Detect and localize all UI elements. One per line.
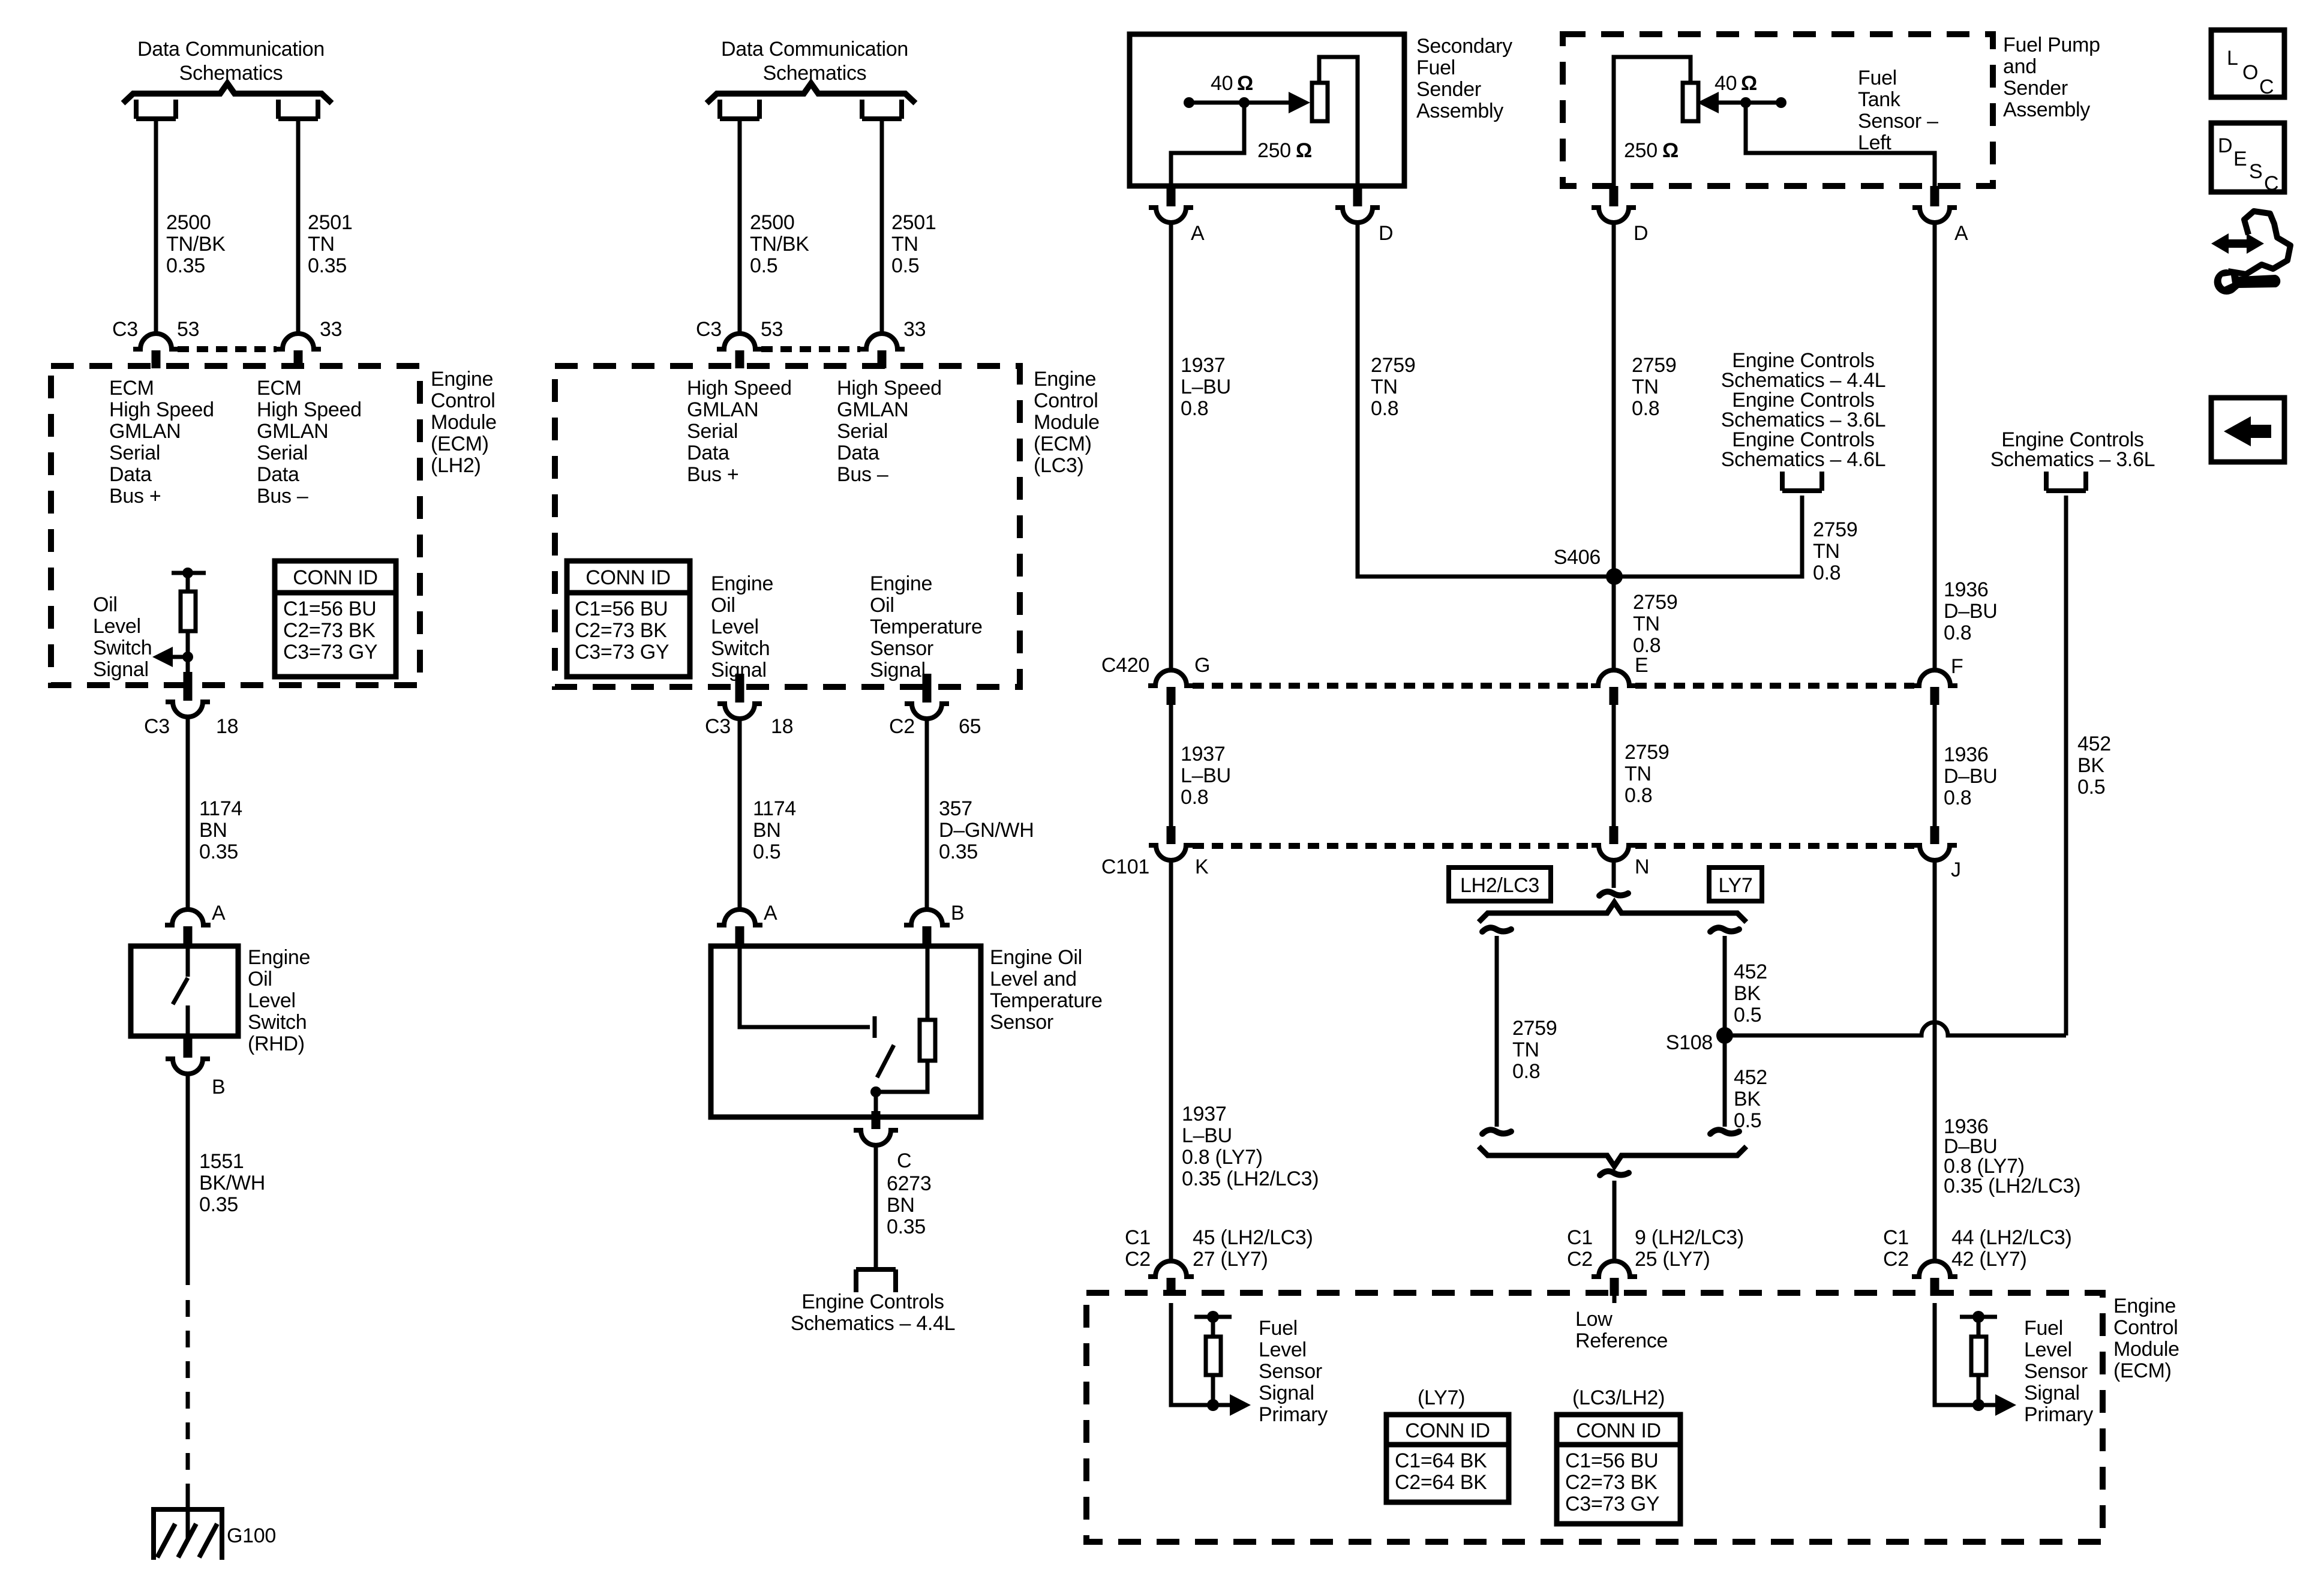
label: Secondary Fuel Sender Assembly — [1416, 35, 1512, 122]
connector C420 pin F — [1912, 670, 1957, 705]
svg-text:(RHD): (RHD) — [248, 1032, 305, 1055]
svg-text:LY7: LY7 — [1718, 874, 1752, 897]
svg-text:0.35: 0.35 — [199, 1193, 238, 1216]
svg-text:S: S — [2249, 160, 2262, 183]
svg-text:K: K — [1195, 855, 1209, 878]
svg-text:Bus +: Bus + — [687, 463, 738, 486]
C420 dashed row segment G-E — [1193, 683, 1594, 689]
svg-text:ECM: ECM — [257, 377, 302, 400]
svg-text:Serial: Serial — [109, 442, 160, 464]
label wire 1937 lower (K) — [1182, 1103, 1319, 1190]
svg-text:F: F — [1951, 655, 1963, 678]
wire 452 BK 0.5 from off-page to S108 branch — [2064, 496, 2068, 1035]
svg-text:18: 18 — [216, 715, 238, 738]
svg-text:TN: TN — [891, 233, 918, 256]
svg-text:0.35 (LH2/LC3): 0.35 (LH2/LC3) — [1944, 1175, 2080, 1197]
wire 2759 TN 0.8 branch S406 to off-page — [1614, 496, 1802, 577]
label: Fuel Pump and Sender Assembly — [2003, 34, 2100, 121]
svg-text:Level: Level — [248, 989, 296, 1012]
svg-text:Primary: Primary — [1259, 1403, 1328, 1426]
svg-text:High Speed: High Speed — [109, 398, 214, 421]
svg-text:BK/WH: BK/WH — [199, 1172, 265, 1194]
labels C1 C2 pin 44/42 — [1883, 1226, 2072, 1271]
svg-text:GMLAN: GMLAN — [687, 398, 758, 421]
svg-text:Signal: Signal — [870, 659, 926, 682]
label wire 452 BK 0.5 (below S108) — [1734, 1066, 1767, 1132]
svg-text:Schematics – 4.4L: Schematics – 4.4L — [791, 1312, 956, 1335]
oil level switch signal node (inside ECM LH2) — [152, 568, 206, 685]
svg-text:Engine Controls: Engine Controls — [801, 1290, 944, 1313]
labels C3 18 — [144, 715, 238, 738]
svg-text:High Speed: High Speed — [687, 377, 792, 400]
svg-text:250: 250 — [1624, 139, 1658, 162]
svg-text:Ω: Ω — [1296, 139, 1312, 162]
svg-text:Schematics – 3.6L: Schematics – 3.6L — [1990, 448, 2155, 471]
svg-text:TN: TN — [308, 233, 335, 256]
svg-text:Engine: Engine — [431, 368, 493, 391]
off-page connector (Data Communication, wire 2501 col1) — [278, 100, 318, 119]
LOC icon box — [2211, 30, 2284, 98]
svg-text:40: 40 — [1715, 72, 1737, 95]
svg-text:L: L — [2227, 47, 2238, 70]
svg-text:Level: Level — [1259, 1338, 1307, 1361]
label: Engine Controls Schematics 4.4L/3.6L/4.6L stack — [1721, 349, 1886, 471]
svg-text:0.5: 0.5 — [750, 254, 777, 277]
label wire 452 BK 0.5 (upper right) — [2077, 733, 2111, 798]
svg-text:1936: 1936 — [1944, 743, 1988, 766]
svg-text:Level: Level — [711, 616, 759, 638]
off-page connector to Engine Controls 4.4L — [856, 1269, 896, 1292]
svg-text:0.5: 0.5 — [1734, 1109, 1761, 1132]
svg-text:2759: 2759 — [1632, 354, 1676, 377]
svg-text:Serial: Serial — [687, 420, 738, 443]
switch symbol (oil level switch) — [173, 946, 188, 1036]
off-page connector (wire 2500 col2) — [720, 100, 759, 119]
svg-text:TN: TN — [1632, 376, 1659, 398]
svg-text:0.8: 0.8 — [1625, 784, 1652, 807]
svg-text:Fuel: Fuel — [1259, 1317, 1298, 1340]
svg-text:Assembly: Assembly — [1416, 100, 1503, 122]
connector D (secondary fuel sender) — [1335, 186, 1380, 223]
svg-text:(ECM): (ECM) — [431, 433, 489, 455]
svg-text:Data: Data — [109, 463, 152, 486]
svg-text:(LH2): (LH2) — [431, 454, 481, 477]
connector B (oil level/temp sensor) — [904, 909, 950, 944]
svg-text:Serial: Serial — [837, 420, 888, 443]
svg-text:C3=73 GY: C3=73 GY — [1565, 1493, 1659, 1515]
svg-text:G: G — [1194, 654, 1210, 677]
svg-text:2500: 2500 — [166, 211, 211, 234]
svg-text:C3: C3 — [705, 715, 731, 738]
svg-text:(LY7): (LY7) — [1418, 1386, 1465, 1409]
svg-text:2759: 2759 — [1633, 591, 1677, 614]
svg-text:Data Communication: Data Communication — [137, 38, 325, 61]
svg-text:0.5: 0.5 — [753, 840, 780, 863]
label 40 ohm (fuel tank) — [1715, 72, 1757, 95]
svg-text:Oil: Oil — [248, 968, 272, 990]
svg-text:0.8: 0.8 — [1181, 786, 1208, 809]
svg-text:Schematics: Schematics — [763, 62, 867, 85]
svg-text:Engine: Engine — [870, 572, 932, 595]
potentiometer (fuel tank sensor left) — [1614, 57, 1935, 186]
svg-text:C2: C2 — [1883, 1248, 1909, 1271]
label wire 1174 — [199, 797, 242, 863]
label wire 6273 — [887, 1172, 931, 1238]
svg-text:Sender: Sender — [2003, 77, 2068, 100]
label wire 357 — [939, 797, 1034, 863]
svg-text:2759: 2759 — [1512, 1017, 1557, 1040]
svg-text:and: and — [2003, 55, 2037, 78]
svg-text:Module: Module — [431, 411, 497, 434]
C101 dashed row segment N-J — [1635, 843, 1914, 849]
connector ECM pin 44/42 — [1912, 1261, 1957, 1296]
svg-text:1174: 1174 — [199, 797, 242, 820]
connector C101 pin K — [1149, 826, 1193, 860]
svg-text:C2: C2 — [1125, 1248, 1151, 1271]
svg-text:High Speed: High Speed — [837, 377, 942, 400]
svg-text:Temperature: Temperature — [870, 616, 983, 638]
svg-text:44 (LH2/LC3): 44 (LH2/LC3) — [1951, 1226, 2072, 1249]
svg-text:0.8: 0.8 — [1512, 1060, 1540, 1083]
label wire 2501 — [308, 211, 352, 277]
svg-text:Engine: Engine — [711, 572, 773, 595]
svg-text:TN: TN — [1371, 376, 1398, 398]
dashed bus link col2 — [761, 346, 860, 352]
connector A (fuel pump assembly) — [1912, 186, 1957, 223]
label: Engine Controls Schematics - 4.4L — [791, 1290, 956, 1335]
svg-text:BK: BK — [2077, 754, 2104, 777]
svg-text:D: D — [1634, 222, 1648, 245]
svg-text:Level and: Level and — [990, 968, 1077, 990]
svg-text:1174: 1174 — [753, 797, 796, 820]
boxed label LH2/LC3 — [1449, 867, 1551, 901]
pin labels C3 53 33 (ECM LH2 bus) — [112, 318, 342, 341]
svg-text:B: B — [951, 902, 964, 924]
svg-text:Engine Oil: Engine Oil — [990, 946, 1082, 969]
label 250 ohm (fuel tank) — [1624, 139, 1679, 162]
label wire 2759 (left) — [1371, 354, 1415, 420]
ground G100 — [154, 1498, 222, 1560]
svg-text:Engine: Engine — [1034, 368, 1096, 391]
label wire 1937 mid — [1181, 743, 1231, 809]
potentiometer (secondary fuel sender) — [1171, 57, 1358, 186]
svg-text:0.8: 0.8 — [1944, 786, 1971, 809]
svg-text:Primary: Primary — [2024, 1403, 2093, 1426]
wire 2759 TN 0.8 (fuel pump D through S406 to E) — [1612, 223, 1616, 670]
svg-text:Data: Data — [687, 442, 729, 464]
svg-text:Engine: Engine — [2113, 1295, 2176, 1317]
Engine Oil Level and Temperature Sensor box — [711, 946, 981, 1117]
svg-text:Schematics: Schematics — [179, 62, 283, 85]
svg-text:2759: 2759 — [1625, 741, 1669, 764]
boxed label LY7 — [1709, 867, 1762, 901]
svg-text:1937: 1937 — [1182, 1103, 1226, 1125]
dashed ground wire to G100 — [186, 1300, 190, 1498]
svg-text:Control: Control — [431, 389, 496, 412]
label: Engine Oil Level and Temperature Sensor — [990, 946, 1103, 1034]
svg-text:Temperature: Temperature — [990, 989, 1103, 1012]
svg-text:A: A — [212, 902, 226, 924]
svg-text:BK: BK — [1734, 1088, 1761, 1110]
svg-text:1937: 1937 — [1181, 743, 1225, 766]
svg-text:C3=73 GY: C3=73 GY — [283, 641, 377, 664]
dashed bus link between pins 53 and 33 — [178, 346, 277, 352]
svg-text:Fuel Pump: Fuel Pump — [2003, 34, 2100, 56]
Engine Control Module (ECM) dashed box (bottom) — [1086, 1293, 2103, 1542]
label: ECM High Speed GMLAN Serial Data Bus - — [257, 377, 362, 508]
wire 2501 TN 0.5 — [880, 121, 884, 334]
svg-text:18: 18 — [771, 715, 793, 738]
svg-text:LH2/LC3: LH2/LC3 — [1460, 874, 1539, 897]
svg-text:D–BU: D–BU — [1944, 765, 1998, 788]
svg-text:40: 40 — [1211, 72, 1233, 95]
svg-text:Data: Data — [837, 442, 879, 464]
title: Data Communication Schematics (left) — [137, 38, 325, 85]
wire 1936 D-BU 0.8 (F to J) — [1933, 705, 1937, 826]
low reference stub — [1613, 1296, 1617, 1303]
svg-text:0.5: 0.5 — [1734, 1004, 1761, 1026]
svg-text:C1=56 BU: C1=56 BU — [575, 598, 668, 620]
svg-text:0.8: 0.8 — [1371, 397, 1398, 420]
svg-text:0.8: 0.8 — [1944, 622, 1971, 644]
wire 1936 D-BU 0.8 (fuel pump A to C420 F) — [1933, 223, 1937, 670]
wire N below C101 with break — [1599, 860, 1628, 896]
svg-text:Fuel: Fuel — [1858, 67, 1897, 89]
label wire 1936 upper — [1944, 578, 1998, 644]
svg-text:Engine: Engine — [248, 946, 310, 969]
label wire 2500 — [166, 211, 226, 277]
DESC icon box — [2211, 123, 2284, 195]
svg-text:G100: G100 — [227, 1524, 276, 1547]
svg-text:C2=73 BK: C2=73 BK — [283, 619, 376, 642]
svg-text:A: A — [764, 902, 777, 924]
svg-text:0.5: 0.5 — [891, 254, 919, 277]
svg-text:C1=56 BU: C1=56 BU — [283, 598, 376, 620]
svg-text:65: 65 — [959, 715, 981, 738]
svg-text:Module: Module — [1034, 411, 1100, 434]
svg-text:C2=64 BK: C2=64 BK — [1395, 1471, 1487, 1494]
wire 2500 TN/BK 0.5 — [738, 121, 742, 334]
svg-text:Signal: Signal — [2024, 1382, 2080, 1404]
label: Engine Control Module (ECM) (LC3) — [1034, 368, 1100, 477]
svg-text:A: A — [1191, 222, 1205, 245]
svg-text:Module: Module — [2113, 1338, 2179, 1361]
labels C1 C2 pin 9/25 — [1567, 1226, 1744, 1271]
svg-text:GMLAN: GMLAN — [109, 420, 181, 443]
labels C2 65 — [889, 715, 981, 738]
svg-text:Sensor –: Sensor – — [1858, 110, 1938, 133]
connector C3 pin 18 (ECM LH2 bottom) — [166, 672, 210, 717]
svg-text:0.35: 0.35 — [887, 1215, 926, 1238]
svg-text:Switch: Switch — [248, 1011, 307, 1034]
wire 1936 lower (J to ECM) — [1933, 860, 1937, 1261]
svg-text:452: 452 — [2077, 733, 2111, 755]
svg-text:Data: Data — [257, 463, 299, 486]
temperature sensing resistor inside sensor — [876, 946, 935, 1092]
splice S108 — [1716, 1027, 1733, 1044]
svg-text:C1=56 BU: C1=56 BU — [1565, 1449, 1658, 1472]
svg-text:J: J — [1951, 858, 1961, 881]
svg-text:E: E — [1635, 654, 1648, 677]
fuel level sensor signal primary circuit (right, pin 44/42) — [1935, 1303, 2016, 1416]
label wire 2501 col2 — [891, 211, 936, 277]
wire S108 branch to 452 with hop over J wire — [1725, 1022, 2066, 1035]
connector pin 53 (C3) ECM LH2 — [133, 334, 179, 368]
svg-text:0.35 (LH2/LC3): 0.35 (LH2/LC3) — [1182, 1167, 1319, 1190]
svg-text:D: D — [2218, 134, 2232, 157]
svg-text:Assembly: Assembly — [2003, 98, 2090, 121]
svg-text:C2: C2 — [889, 715, 915, 738]
wire merged low reference below brace — [1600, 1171, 1629, 1261]
svg-text:S108: S108 — [1666, 1031, 1713, 1054]
svg-text:C: C — [2259, 76, 2274, 98]
wire 1551 BK/WH 0.35 — [186, 1074, 190, 1285]
svg-text:2501: 2501 — [308, 211, 352, 234]
label: Fuel Level Sensor Signal Primary (left) — [1259, 1317, 1328, 1426]
svg-text:0.35: 0.35 — [166, 254, 205, 277]
svg-text:2759: 2759 — [1813, 518, 1857, 541]
LH2/LC3 2759 sub-wire with breaks — [1482, 927, 1511, 1134]
svg-text:Sensor: Sensor — [870, 637, 933, 660]
connector C420 pin E — [1591, 670, 1637, 705]
svg-text:45 (LH2/LC3): 45 (LH2/LC3) — [1193, 1226, 1313, 1249]
label: High Speed GMLAN Serial Data Bus - (LC3) — [837, 377, 942, 486]
label wire 2759 branch — [1813, 518, 1857, 584]
svg-text:C2=73 BK: C2=73 BK — [1565, 1471, 1658, 1494]
label: Engine Control Module (ECM) (LH2) — [431, 368, 497, 477]
connector C3 pin 18 (ECM LC3 bottom) — [717, 674, 762, 719]
connector C101 pin N — [1592, 826, 1636, 860]
svg-text:25 (LY7): 25 (LY7) — [1635, 1248, 1710, 1271]
wire 6273 BN 0.35 — [874, 1145, 878, 1267]
connector C2 pin 65 (ECM LC3 bottom) — [905, 674, 949, 719]
title: Data Communication Schematics (middle) — [721, 38, 908, 85]
label wire 2759 below S406 — [1633, 591, 1677, 657]
splice S406 — [1606, 568, 1623, 585]
wire 357 D-GN/WH 0.35 — [925, 719, 929, 909]
svg-text:CONN ID: CONN ID — [585, 566, 670, 589]
svg-text:0.35: 0.35 — [308, 254, 347, 277]
svg-text:Data Communication: Data Communication — [721, 38, 908, 61]
svg-text:Control: Control — [1034, 389, 1098, 412]
svg-text:9 (LH2/LC3): 9 (LH2/LC3) — [1635, 1226, 1744, 1249]
label: Engine Oil Level Switch Signal — [711, 572, 773, 682]
wire 1174 BN 0.35 — [186, 717, 190, 909]
wire 2759 TN 0.8 (E to N) — [1612, 705, 1616, 826]
svg-text:Bus –: Bus – — [837, 463, 888, 486]
label 40 ohm (secondary) — [1211, 72, 1253, 95]
label wire 2500 col2 — [750, 211, 809, 277]
svg-text:TN: TN — [1512, 1038, 1539, 1061]
svg-text:2500: 2500 — [750, 211, 794, 234]
svg-text:0.35: 0.35 — [939, 840, 978, 863]
svg-text:Low: Low — [1575, 1308, 1613, 1331]
label: Fuel Tank Sensor - Left — [1858, 67, 1938, 154]
label: Engine Oil Level Switch (RHD) — [248, 946, 310, 1055]
svg-text:N: N — [1635, 855, 1649, 878]
svg-text:BN: BN — [887, 1194, 915, 1217]
label wire 1936 mid — [1944, 743, 1998, 809]
svg-text:C: C — [897, 1149, 911, 1172]
label: Engine Controls Schematics - 3.6L (452 branch) — [1990, 428, 2155, 471]
svg-text:53: 53 — [761, 318, 783, 341]
brace under left title — [123, 83, 332, 103]
svg-text:Fuel: Fuel — [2024, 1317, 2063, 1340]
svg-text:L–BU: L–BU — [1181, 764, 1231, 787]
connector A (oil level switch) — [165, 909, 211, 944]
svg-text:S406: S406 — [1554, 546, 1601, 569]
svg-text:C3=73 GY: C3=73 GY — [575, 641, 669, 664]
svg-text:C101: C101 — [1101, 855, 1149, 878]
svg-text:D–GN/WH: D–GN/WH — [939, 819, 1034, 842]
svg-text:Fuel: Fuel — [1416, 56, 1455, 79]
svg-text:Switch: Switch — [93, 637, 152, 659]
svg-text:TN/BK: TN/BK — [166, 233, 226, 256]
label: ECM High Speed GMLAN Serial Data Bus + — [109, 377, 214, 508]
svg-text:Level: Level — [2024, 1338, 2072, 1361]
svg-text:Level: Level — [93, 615, 141, 638]
svg-text:Oil: Oil — [711, 594, 735, 617]
off-page connector (452 BK wire) — [2046, 472, 2086, 491]
labels C3 18 col2 — [705, 715, 793, 738]
svg-text:2759: 2759 — [1371, 354, 1415, 377]
label wire 2759 mid — [1625, 741, 1669, 807]
svg-text:Oil: Oil — [93, 593, 118, 616]
svg-text:CONN ID: CONN ID — [1405, 1419, 1490, 1442]
wire K (G to ECM) — [1169, 860, 1173, 1261]
svg-text:BN: BN — [199, 819, 227, 842]
svg-text:1551: 1551 — [199, 1150, 244, 1173]
svg-text:42 (LY7): 42 (LY7) — [1951, 1248, 2026, 1271]
label: Low Reference — [1575, 1308, 1668, 1352]
svg-text:250: 250 — [1257, 139, 1291, 162]
svg-text:A: A — [1954, 222, 1968, 245]
svg-text:Reference: Reference — [1575, 1329, 1668, 1352]
connector C (sensor bottom) — [854, 1111, 898, 1145]
label: Engine Control Module (ECM) bottom — [2113, 1295, 2179, 1382]
svg-text:1936: 1936 — [1944, 578, 1988, 601]
svg-text:0.8: 0.8 — [1181, 397, 1208, 420]
pin labels C3 53 33 (ECM LC3 bus) — [696, 318, 926, 341]
svg-text:452: 452 — [1734, 1066, 1767, 1089]
back arrow icon box — [2211, 398, 2284, 462]
svg-text:Serial: Serial — [257, 442, 308, 464]
label: High Speed GMLAN Serial Data Bus + (LC3) — [687, 377, 792, 486]
svg-text:(LC3): (LC3) — [1034, 454, 1084, 477]
svg-text:CONN ID: CONN ID — [1576, 1419, 1661, 1442]
svg-text:D: D — [1379, 222, 1393, 245]
svg-text:Oil: Oil — [870, 594, 894, 617]
connector ECM pin 45/27 — [1148, 1261, 1194, 1296]
svg-text:33: 33 — [320, 318, 342, 341]
svg-text:TN: TN — [1633, 613, 1660, 635]
svg-text:E: E — [2233, 148, 2247, 170]
wire 1174 BN 0.5 — [738, 719, 742, 909]
label wire 452 BK 0.5 (above S108) — [1734, 960, 1767, 1026]
svg-text:TN: TN — [1813, 540, 1840, 563]
svg-text:BK: BK — [1734, 982, 1761, 1005]
svg-text:0.8 (LY7): 0.8 (LY7) — [1182, 1146, 1263, 1169]
off-page connector (Data Communication, wire 2500 col1) — [136, 100, 176, 119]
switch symbol inside sensor — [740, 946, 894, 1117]
connector pin 53 (ECM LC3) — [717, 334, 762, 368]
connector pin 33 (ECM LC3) — [859, 334, 905, 368]
label: Engine Oil Temperature Sensor Signal — [870, 572, 983, 682]
lower brace (wire merge) — [1479, 1146, 1746, 1166]
svg-text:(LC3/LH2): (LC3/LH2) — [1572, 1386, 1665, 1409]
svg-text:C1: C1 — [1567, 1226, 1593, 1249]
CONN ID table (LY7) — [1386, 1415, 1509, 1502]
